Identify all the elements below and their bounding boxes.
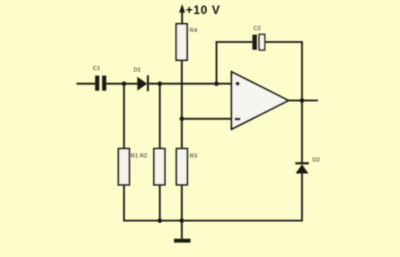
svg-text:R1 R2: R1 R2	[131, 154, 147, 160]
svg-text:+10 V: +10 V	[186, 3, 221, 17]
svg-text:R4: R4	[190, 28, 198, 34]
svg-text:D1: D1	[134, 67, 141, 73]
svg-text:C2: C2	[254, 26, 261, 32]
svg-text:C1: C1	[93, 66, 100, 72]
svg-text:D2: D2	[313, 157, 320, 163]
svg-text:R3: R3	[190, 154, 197, 160]
